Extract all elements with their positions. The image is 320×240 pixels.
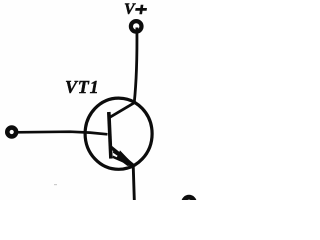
svg-text:V: V bbox=[124, 1, 136, 18]
terminal V+ bbox=[131, 21, 142, 32]
svg-text:VT1: VT1 bbox=[65, 77, 99, 97]
wire emitter down bbox=[133, 165, 134, 200]
wire base horizontal bbox=[17, 132, 108, 135]
terminal base left bbox=[7, 128, 16, 137]
emitter arrowhead bbox=[117, 150, 135, 166]
terminal bottom-right (cut off) bbox=[184, 197, 195, 208]
emitter diagonal bbox=[111, 147, 134, 166]
collector diagonal bbox=[110, 103, 134, 118]
emitter arrowhead middle prong bbox=[113, 150, 122, 158]
base bar bbox=[109, 112, 111, 159]
wire collector vertical bbox=[134, 28, 137, 104]
label V+ : plus sign bbox=[135, 5, 148, 15]
speck noise bbox=[54, 184, 57, 185]
emitter arrowhead barb bbox=[113, 156, 124, 163]
transistor VT1 body circle bbox=[85, 98, 152, 169]
